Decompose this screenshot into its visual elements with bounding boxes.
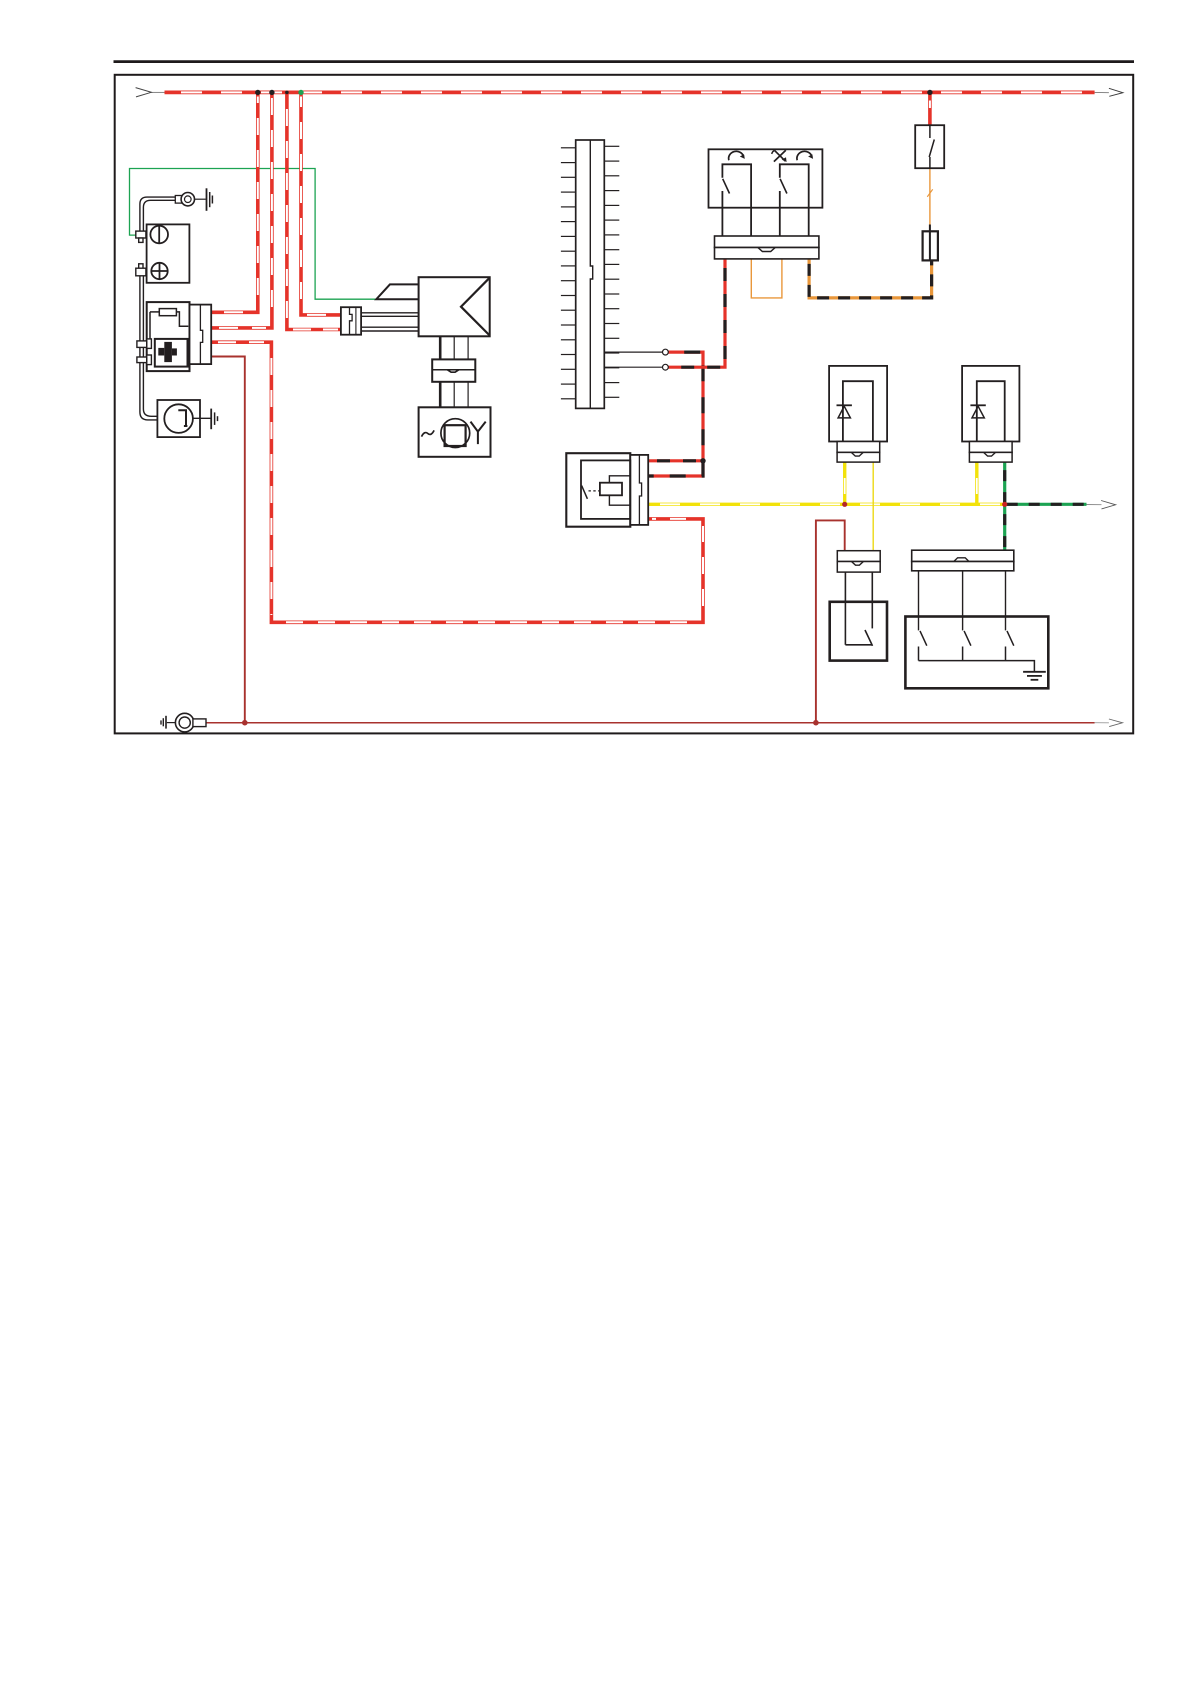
- right solenoid contact: [780, 164, 809, 236]
- left solenoid contact: [722, 164, 751, 236]
- glow plug / main relay (centre): [566, 453, 648, 527]
- wire ground to ring terminal: [167, 722, 176, 724]
- wire: main +12V red dashed bus (top): [165, 91, 1095, 95]
- charge-splitting diode module 2: [962, 366, 1019, 442]
- wire: green battery-sense wire from battery minus to alternator flag: [130, 169, 377, 300]
- rotation arrow left: [729, 151, 744, 160]
- wire to upper ground: [195, 198, 206, 200]
- wire: yellow drop diode 1: [843, 462, 846, 504]
- common rail to ground: [919, 661, 1035, 672]
- node: supply bus arrow left: [136, 88, 166, 97]
- wire: yellow bus from glow relay to diode modules: [648, 503, 1005, 506]
- ECU output pin leads with socket circles: [604, 349, 668, 370]
- wire: battery plus cable down to starter motor (double line): [140, 276, 167, 420]
- wire: thin dark red wire from starter to ground bus: [211, 357, 245, 723]
- node: splice tick on orange wire: [927, 189, 932, 197]
- wire starter motor to ground: [193, 417, 211, 419]
- charge-splitting diode module 1: [829, 366, 887, 442]
- ground symbol at starter motor: [211, 409, 217, 430]
- ring terminal upper (battery ground): [175, 193, 194, 206]
- node: supply bus arrow right: [1095, 88, 1123, 96]
- pins regulator to connector: [440, 336, 468, 359]
- wire: battery minus cable to ring terminal (double line): [140, 197, 176, 231]
- battery: [147, 224, 190, 282]
- fuse: [923, 225, 938, 261]
- starter motor solenoid unit: [147, 302, 212, 371]
- battery plus terminal clamp: [136, 264, 146, 276]
- node: junction dots on yellow bus: [842, 502, 847, 507]
- ground symbol upper left: [207, 188, 213, 211]
- diode module 2 connector: [969, 442, 1012, 463]
- wire: green/black wire from diode 2 down to switch unit: [1003, 462, 1006, 551]
- wire: thin yellow wire from diode 1 to stop switch: [872, 462, 874, 551]
- stop switch contact: [845, 644, 871, 646]
- pins connector to alternator: [440, 382, 468, 408]
- multi-switch pins: [918, 571, 920, 631]
- stop switch pins: [844, 572, 846, 645]
- wire: red drop line 3 (bus to regulator connector): [287, 92, 341, 329]
- trim relay connector: [715, 236, 819, 259]
- wire: orange jumper loop under trim relay: [751, 259, 782, 298]
- switch blades: [919, 631, 1014, 661]
- wire: red/black wire from ECU pin to relay coil junction: [648, 352, 703, 476]
- node: arrow right middle: [1087, 501, 1116, 509]
- wire: red/black wire from ECU pin up to trim relay connector: [668, 259, 725, 367]
- top rule: [114, 60, 1135, 63]
- wire: red drop line 4 (bus to regulator connector): [301, 92, 341, 315]
- wire: thin dark red wire from ground bus up to stop switch connector: [816, 520, 845, 722]
- border frame of schematic: [115, 75, 1133, 734]
- starter terminal tabs: [137, 339, 152, 365]
- node: arrow bottom right: [1095, 719, 1123, 727]
- multi-switch unit box: [905, 617, 1048, 689]
- wire: branch into relay upper pin: [648, 459, 703, 462]
- double-line wires connector to regulator box: [361, 313, 419, 331]
- wire: red dashed loop from starter terminal to glow relay: [211, 342, 703, 622]
- wire: ground bus along bottom: [206, 722, 1095, 724]
- rotation arrow right: [797, 151, 812, 160]
- alternator (AC generator with rectifier): [419, 407, 491, 457]
- ground symbol bottom left: [161, 716, 166, 729]
- crossed arrow symbol: [774, 150, 786, 161]
- node: junction dots on +12V bus: [255, 90, 260, 95]
- ECU pins left ticks: [561, 148, 576, 399]
- wire: red drop from bus to oil pressure switch (top right): [928, 92, 932, 125]
- stop switch box: [830, 602, 887, 661]
- wire: green/black wire to right edge arrow: [1005, 503, 1087, 506]
- diode module 1 connector: [837, 442, 880, 463]
- wire: red drop line 1 (starter B+ to bus): [211, 92, 258, 312]
- trim/main relay unit (top right): [709, 149, 823, 236]
- wire: orange wire from oil switch to fuse: [929, 168, 931, 224]
- node: junction dots on ground bus: [242, 720, 248, 726]
- ground symbol in switch unit: [1023, 672, 1046, 680]
- wire: red drop line 2 (starter to bus): [211, 92, 272, 328]
- node: junction dot relay coil: [700, 458, 705, 463]
- ECU pins right ticks: [604, 146, 619, 397]
- stop switch connector: [837, 551, 880, 572]
- voltage regulator box with envelope symbol: [376, 277, 489, 336]
- wire: black/orange wire from trim relay to fuse: [809, 259, 932, 298]
- oil pressure switch (top right): [915, 125, 944, 168]
- ECU multi-pin connector strip: [576, 140, 605, 408]
- starter motor (circle in box): [157, 400, 200, 437]
- wire: yellow drop diode 2: [975, 462, 978, 504]
- ring terminal bottom (main ground): [175, 713, 206, 732]
- connector between regulator and alternator: [432, 359, 475, 381]
- multi-switch unit connector: [912, 550, 1014, 571]
- connector plug of alternator harness: [341, 307, 361, 335]
- battery minus terminal clamp: [136, 231, 146, 242]
